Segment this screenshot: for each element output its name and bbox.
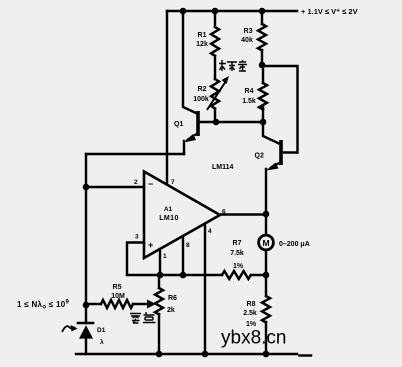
wire left column down to input node [85, 154, 87, 323]
resistor R7 [222, 271, 251, 279]
node B dot R3-R4 [259, 62, 266, 69]
svg-text:LM10: LM10 [159, 215, 179, 222]
wire bottom bus pins to R7 [159, 274, 222, 276]
svg-text:Q2: Q2 [255, 153, 264, 160]
wire op-amp pin 1 [159, 249, 161, 275]
node dot R6-ground [156, 351, 163, 358]
wire base bus Q1-R2-node C [198, 121, 263, 123]
wire op-amp pin 8 [182, 237, 184, 275]
svg-text:A1: A1 [164, 206, 173, 213]
meter M [259, 235, 274, 250]
svg-text:M: M [262, 238, 269, 248]
diode D1 triangle [79, 325, 93, 338]
wire op-amp pin 4 to ground [204, 225, 206, 354]
wire R8 to ground rail [265, 322, 267, 354]
wire R3 to node B [261, 50, 263, 65]
photodiode D1 light arrow [62, 326, 75, 332]
wire output node to meter [265, 214, 267, 235]
node D dot R7-meter-R8 [263, 272, 270, 279]
node dot pin8 [180, 272, 187, 279]
potentiometer R2 arrow [207, 81, 226, 110]
svg-text:LM114: LM114 [212, 164, 234, 171]
resistor R5 [101, 300, 133, 308]
svg-text:6: 6 [222, 209, 226, 216]
wire R4 to node C [262, 105, 264, 122]
wire R2 to base bus [214, 109, 216, 123]
wire top V+ rail [167, 10, 297, 12]
node dot input-R5 [83, 302, 90, 309]
wire op-amp output pin 6 [220, 213, 266, 215]
svg-text:R1: R1 [198, 32, 207, 39]
svg-text:7: 7 [171, 179, 175, 186]
resistor R3 [258, 24, 266, 50]
svg-text:40k: 40k [241, 37, 253, 44]
node dot R2 wiper-base bus [213, 119, 220, 126]
resistor R1 [211, 27, 219, 56]
diode D1 cathode bar [78, 322, 93, 325]
svg-text:1: 1 [163, 253, 167, 260]
node dot pin4-ground [202, 351, 209, 358]
wire left rail / op-amp pin 7 supply [166, 11, 168, 183]
svg-text:0–200 μA: 0–200 μA [279, 241, 310, 248]
svg-text:2: 2 [134, 179, 138, 186]
node dot pin1-pin3 [157, 272, 164, 279]
svg-text:R3: R3 [244, 28, 253, 35]
wire R6 top [158, 275, 160, 288]
svg-text:10M: 10M [111, 293, 125, 300]
svg-text:8: 8 [186, 242, 190, 249]
node dot pin2 input [83, 184, 90, 191]
node dot rail-R1 [212, 8, 219, 15]
transistor Q1 base bar [196, 111, 200, 136]
node C dot R4-Q2 [260, 119, 267, 126]
svg-text:1.5k: 1.5k [242, 98, 256, 105]
wire ground rail [76, 353, 297, 355]
svg-text:100k: 100k [193, 96, 209, 103]
transistor Q2 base bar [279, 140, 283, 165]
potentiometer R6 wiper arrow [147, 300, 156, 309]
svg-text:D1: D1 [97, 327, 106, 334]
wire node B to R4 [262, 65, 264, 83]
svg-text:1%: 1% [233, 263, 244, 270]
wire emitter to left column [86, 153, 184, 155]
potentiometer R6 [155, 288, 163, 314]
svg-text:R6: R6 [168, 295, 177, 302]
wire Q1 emitter down [183, 141, 185, 154]
svg-text:+ 1.1V ≤ V⁺ ≤ 2V: + 1.1V ≤ V⁺ ≤ 2V [301, 7, 358, 16]
svg-text:2.5k: 2.5k [243, 310, 257, 317]
node dot rail-R3 [259, 8, 266, 15]
svg-text:R5: R5 [113, 284, 122, 291]
svg-text:4: 4 [208, 228, 212, 235]
wire R1 to R2 [214, 56, 216, 79]
wire Q2 collector [263, 122, 280, 144]
wire rail to R3 [261, 11, 263, 24]
node dot rail-Q1 [180, 8, 187, 15]
svg-text:R8: R8 [247, 301, 256, 308]
wire op-amp pin 3 loop [127, 243, 159, 276]
wire Q2 emitter down to output node [265, 169, 267, 214]
resistor R8 [262, 296, 270, 322]
svg-text:12k: 12k [196, 41, 208, 48]
label 标定 calibrate [219, 60, 247, 71]
label 零点 zero [130, 312, 156, 323]
svg-text:−: − [148, 179, 153, 189]
wire input node to R5 [86, 303, 101, 305]
wire R5 arrow to R6 wiper [133, 303, 148, 305]
svg-text:λ: λ [100, 338, 104, 346]
wire node B to Q2 base loop [262, 66, 298, 153]
svg-text:R2: R2 [198, 86, 207, 93]
wire op-amp pin 2 input [86, 186, 144, 188]
wire rail to R1 [214, 11, 216, 27]
node dot R8-ground [263, 351, 270, 358]
svg-text:ybx8.cn: ybx8.cn [221, 328, 286, 349]
svg-text:+: + [148, 240, 153, 250]
wire D1 anode to ground rail [85, 339, 87, 354]
svg-text:3: 3 [135, 234, 139, 241]
wire negative terminal dash [300, 354, 312, 356]
svg-text:R4: R4 [245, 88, 254, 95]
potentiometer R2 [211, 79, 219, 109]
transistor Q2 emitter with arrow [270, 162, 281, 168]
wire R7 to node D [251, 274, 266, 276]
svg-text:2k: 2k [167, 307, 175, 314]
op-amp U1 A1 LM10 triangle [144, 172, 220, 259]
wire R6 to ground rail [158, 314, 160, 354]
wire node D to R8 [265, 275, 267, 296]
svg-text:R7: R7 [233, 240, 242, 247]
transistor Q1 emitter with arrow [187, 133, 198, 140]
wire meter to node D [265, 250, 267, 275]
node dot output-pin6 [263, 211, 270, 218]
svg-text:Q1: Q1 [174, 121, 183, 128]
resistor R4 [259, 83, 267, 109]
wire Q1 collector to rail [183, 11, 196, 113]
svg-text:7.5k: 7.5k [230, 250, 244, 257]
